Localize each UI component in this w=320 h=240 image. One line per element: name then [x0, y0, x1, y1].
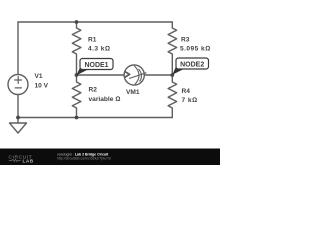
resistor R2 [72, 75, 81, 118]
svg-text:LAB: LAB [23, 158, 34, 163]
junction ground [16, 116, 20, 120]
voltage source V1 [8, 75, 28, 95]
svg-text:10 V: 10 V [35, 83, 49, 90]
svg-text:R4: R4 [182, 88, 191, 95]
junction top R1 [75, 20, 79, 24]
svg-text:VM1: VM1 [126, 89, 140, 96]
resistor R4 [168, 75, 177, 118]
resistor R1 [72, 22, 81, 75]
svg-text:R2: R2 [89, 87, 98, 94]
footer bar [0, 149, 220, 166]
svg-text:NODE2: NODE2 [180, 62, 204, 69]
node NODE2 flag [172, 58, 208, 75]
svg-text:4.3 kΩ: 4.3 kΩ [88, 45, 110, 52]
junction bottom R2 [75, 116, 79, 120]
resistor R3 [168, 22, 177, 75]
wire left vertical top [17, 22, 19, 75]
node B junction NODE2 [170, 73, 174, 77]
svg-text:NODE1: NODE1 [84, 62, 108, 69]
wire meter to node2 [144, 74, 172, 76]
wire top rail [18, 21, 172, 23]
svg-text:7 kΩ: 7 kΩ [182, 97, 198, 104]
svg-text:R1: R1 [88, 36, 97, 43]
svg-text:5.095 kΩ: 5.095 kΩ [180, 45, 211, 52]
wire left vertical bottom [17, 95, 19, 124]
svg-text:variable Ω: variable Ω [89, 96, 121, 103]
node NODE1 flag [77, 59, 114, 76]
wire node1 to meter [77, 74, 125, 76]
svg-text:http://circuitlab.com/c/52kzr7: http://circuitlab.com/c/52kzr7j9u7id [57, 157, 111, 161]
wire bottom rail [18, 117, 172, 119]
voltmeter VM1 [124, 65, 144, 85]
ground [10, 123, 27, 133]
svg-text:V1: V1 [35, 73, 43, 80]
svg-text:R3: R3 [181, 36, 190, 43]
node A junction NODE1 [75, 73, 79, 77]
